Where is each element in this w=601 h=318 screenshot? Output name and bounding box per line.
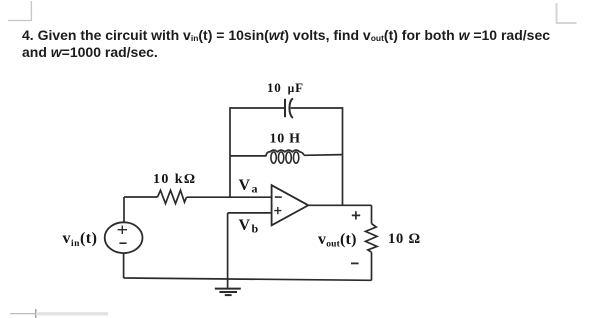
wire top right (feedback top rail, right of C1) bbox=[291, 107, 343, 109]
wire source top vertical bbox=[123, 197, 125, 223]
svg-text:10 H: 10 H bbox=[270, 132, 301, 147]
svg-text:vout(t): vout(t) bbox=[318, 231, 357, 250]
scan mark bottom-left bbox=[10, 309, 108, 318]
svg-text:Vb: Vb bbox=[239, 217, 259, 236]
op-amp minus input sign bbox=[275, 196, 282, 198]
wire below R2 bbox=[371, 252, 373, 280]
svg-text:Va: Va bbox=[239, 177, 258, 196]
resistor R1 10k zigzag bbox=[158, 190, 187, 203]
svg-text:10 kΩ: 10 kΩ bbox=[153, 172, 197, 187]
capacitor 10uF bbox=[285, 98, 293, 118]
svg-text:10 Ω: 10 Ω bbox=[388, 231, 421, 247]
plus sign above vout bbox=[352, 211, 360, 219]
wire inductor rail right bbox=[304, 154, 343, 157]
source Vin circle bbox=[105, 222, 143, 253]
wire left feedback vertical bbox=[229, 107, 231, 197]
resistor R2 10ohm vertical zigzag bbox=[366, 224, 378, 253]
scan crop mark top-right bbox=[556, 3, 577, 23]
wire op-amp output rail bbox=[308, 204, 371, 206]
ground symbol bbox=[215, 289, 241, 296]
scan crop mark top-left bbox=[8, 1, 32, 21]
wire R1 to op-amp inverting input bbox=[187, 196, 272, 198]
wire output corner vertical bbox=[371, 205, 373, 223]
source minus sign bbox=[119, 242, 126, 244]
svg-text:10 µF: 10 µF bbox=[267, 80, 304, 95]
wire Va node rail (source corner to R1) bbox=[124, 196, 158, 198]
op-amp U1 triangle bbox=[272, 185, 309, 225]
wire Vb vertical to ground bbox=[227, 213, 229, 288]
op-amp plus input sign bbox=[274, 207, 281, 214]
source plus sign bbox=[118, 226, 127, 235]
wire right feedback vertical bbox=[342, 107, 344, 205]
wire inductor rail left bbox=[230, 155, 266, 157]
wire source bottom vertical bbox=[123, 253, 125, 278]
minus sign below vout bbox=[351, 262, 359, 264]
problem statement line 1 bbox=[22, 27, 550, 43]
problem statement line 2 bbox=[22, 44, 158, 60]
svg-text:vin(t): vin(t) bbox=[63, 230, 98, 249]
wire Vb rail to op-amp non-inverting input bbox=[228, 212, 272, 214]
wire top left (feedback top rail, left of C1) bbox=[230, 107, 284, 109]
inductor 10H coil bbox=[266, 150, 304, 163]
wire bottom rail bbox=[124, 278, 372, 280]
